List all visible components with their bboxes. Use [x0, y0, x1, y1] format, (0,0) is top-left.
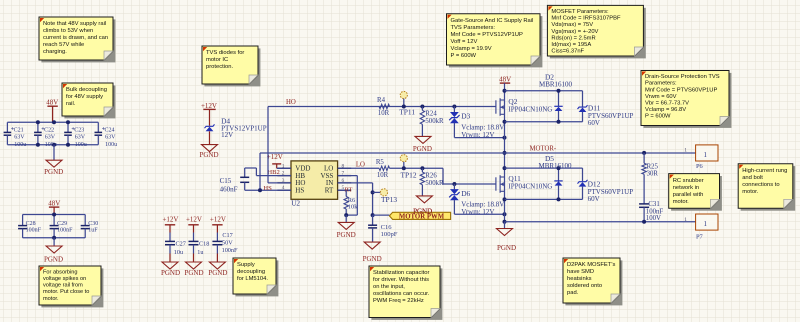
- test point TP11: [400, 91, 407, 98]
- transistor Q2: [495, 100, 497, 113]
- svg-text:PGND: PGND: [337, 231, 356, 239]
- svg-text:HO: HO: [286, 99, 296, 106]
- wire pin3 HO vertical: [267, 107, 269, 183]
- svg-text:Stabilization capacitor: Stabilization capacitor: [373, 270, 429, 276]
- svg-text:C16: C16: [381, 224, 393, 231]
- capacitor C23: [67, 122, 69, 132]
- svg-text:PWM Freq = 22kHz: PWM Freq = 22kHz: [373, 298, 424, 304]
- svg-text:P7: P7: [696, 234, 704, 241]
- svg-text:R26: R26: [425, 172, 437, 179]
- svg-text:HS: HS: [295, 187, 304, 195]
- svg-text:and bolt: and bolt: [742, 175, 763, 181]
- svg-text:Vgs(max) = +-20V: Vgs(max) = +-20V: [551, 29, 598, 35]
- svg-text:TVS diodes for: TVS diodes for: [206, 50, 244, 56]
- svg-text:100pF: 100pF: [381, 231, 398, 238]
- diode D6 TVS: [452, 182, 456, 186]
- wire pin5 RT: [338, 189, 350, 191]
- ground PGND (VSS/R6): [345, 215, 347, 222]
- wire pin4 HS: [245, 189, 291, 191]
- svg-text:MBR16100: MBR16100: [539, 80, 573, 88]
- pin stubs U2: [277, 167, 291, 169]
- svg-text:soldered onto: soldered onto: [567, 283, 602, 289]
- wire PGND bus 2: [23, 237, 86, 239]
- capacitor C30: [84, 215, 86, 226]
- wire D6 to source: [454, 213, 504, 215]
- note TVS diodes: [202, 46, 260, 86]
- resistor R25 snubber: [643, 153, 645, 163]
- wire pin8 LO to R5: [338, 167, 380, 169]
- svg-text:30R: 30R: [647, 170, 659, 177]
- svg-text:HB2: HB2: [267, 169, 279, 176]
- svg-text:RT: RT: [325, 187, 334, 195]
- svg-text:100u: 100u: [14, 142, 26, 148]
- svg-text:PGND: PGND: [363, 255, 382, 263]
- svg-text:voltage rail from: voltage rail from: [43, 283, 83, 289]
- svg-text:12V: 12V: [221, 131, 233, 139]
- note high-current connections: [738, 164, 795, 211]
- svg-text:for LM5104.: for LM5104.: [237, 276, 268, 282]
- svg-text:Note that 48V supply rail: Note that 48V supply rail: [43, 21, 106, 27]
- svg-text:Mnf Code = PTVS12VP1UP: Mnf Code = PTVS12VP1UP: [451, 32, 523, 38]
- note gate-source TVS parameters: [447, 14, 543, 68]
- svg-text:High-current rung: High-current rung: [742, 168, 787, 174]
- svg-text:+12V: +12V: [162, 215, 178, 223]
- svg-text:TVS Parameters:: TVS Parameters:: [451, 25, 496, 31]
- test point TP13: [371, 190, 375, 194]
- svg-text:1uF: 1uF: [88, 228, 98, 234]
- note stabilization capacitor: [369, 266, 442, 320]
- wire MOTOR- rail: [260, 152, 696, 154]
- note drain-source TVS parameters: [641, 71, 731, 128]
- junction dots power column: [503, 89, 507, 93]
- svg-text:50V: 50V: [222, 240, 233, 247]
- svg-text:Vds(max) = 75V: Vds(max) = 75V: [551, 22, 593, 28]
- svg-text:PGND: PGND: [208, 269, 227, 277]
- note bulk decoupling: [62, 83, 115, 118]
- svg-text:100nF: 100nF: [57, 228, 73, 234]
- capacitor C16: [372, 215, 374, 225]
- svg-text:63V: 63V: [14, 135, 25, 141]
- wire D2/D11 bottom bus: [505, 121, 583, 123]
- svg-text:10u: 10u: [174, 249, 183, 256]
- svg-text:connections to: connections to: [742, 182, 779, 188]
- svg-text:Parameters:: Parameters:: [645, 81, 677, 87]
- ground PGND (cap bank): [53, 145, 55, 161]
- svg-text:PGND: PGND: [413, 145, 432, 153]
- svg-text:motor.: motor.: [43, 296, 59, 302]
- svg-text:motor IC: motor IC: [206, 57, 228, 63]
- svg-text:C31: C31: [648, 201, 659, 208]
- port MOTOR PWM: [389, 212, 450, 219]
- svg-text:Voff = 12V: Voff = 12V: [451, 39, 478, 45]
- svg-text:60V: 60V: [588, 119, 600, 127]
- svg-text:U2: U2: [291, 200, 300, 208]
- svg-text:C27: C27: [176, 241, 186, 248]
- svg-text:C21: C21: [14, 127, 24, 133]
- wire pin7 VSS route: [338, 175, 358, 177]
- note RC snubber: [669, 174, 722, 211]
- svg-text:HS: HS: [263, 185, 272, 192]
- svg-text:500kR: 500kR: [425, 118, 444, 125]
- svg-text:MOSFET Parameters:: MOSFET Parameters:: [551, 9, 609, 15]
- wire 48V bus: [7, 121, 98, 123]
- junction dots cap bank: [36, 120, 40, 124]
- svg-text:Mnf Code = PTVS60VP1UP: Mnf Code = PTVS60VP1UP: [645, 87, 717, 93]
- svg-text:Drain-Source Protection TVS: Drain-Source Protection TVS: [645, 74, 720, 80]
- svg-text:100nF: 100nF: [26, 228, 42, 234]
- svg-text:100u: 100u: [105, 142, 117, 148]
- svg-text:current is drawn, and can: current is drawn, and can: [43, 35, 108, 41]
- ground PGND (C16): [364, 242, 380, 249]
- wire D2/D11 top bus: [505, 90, 583, 92]
- svg-text:+12V: +12V: [210, 215, 226, 223]
- diode D3 TVS: [452, 105, 456, 109]
- svg-text:Vclamp = 96.8V: Vclamp = 96.8V: [645, 107, 686, 113]
- capacitor C15: [244, 168, 246, 177]
- svg-text:TP13: TP13: [381, 195, 397, 204]
- svg-text:voltage spikes on: voltage spikes on: [43, 276, 86, 282]
- svg-text:C29: C29: [57, 221, 67, 227]
- svg-text:1: 1: [684, 147, 687, 153]
- svg-text:R4: R4: [377, 97, 386, 104]
- svg-text:for driver. Without this: for driver. Without this: [373, 277, 429, 283]
- svg-text:motor. Put close to: motor. Put close to: [43, 289, 89, 295]
- svg-text:10R: 10R: [377, 172, 389, 179]
- svg-text:C30: C30: [88, 221, 98, 227]
- resistor R4: [379, 104, 389, 108]
- svg-text:Bulk decoupling: Bulk decoupling: [66, 87, 107, 93]
- svg-text:C17: C17: [222, 232, 232, 239]
- svg-text:climbs to 53V when: climbs to 53V when: [43, 28, 93, 34]
- svg-text:C28: C28: [26, 221, 36, 227]
- svg-text:on the input,: on the input,: [373, 284, 405, 290]
- svg-text:Mnf Code = IRFS3107PBF: Mnf Code = IRFS3107PBF: [551, 16, 621, 22]
- svg-text:460nF: 460nF: [220, 185, 238, 193]
- svg-text:100u: 100u: [75, 142, 87, 148]
- svg-text:C22: C22: [44, 127, 54, 133]
- capacitor C21: [6, 122, 8, 132]
- svg-text:PGND: PGND: [161, 269, 180, 277]
- svg-text:C15: C15: [220, 177, 232, 185]
- capacitor C22: [37, 122, 39, 132]
- svg-text:PGND: PGND: [44, 256, 63, 264]
- svg-text:500kR: 500kR: [425, 180, 444, 187]
- svg-text:Ciss=6.37nF: Ciss=6.37nF: [551, 49, 584, 55]
- svg-text:C24: C24: [105, 127, 115, 133]
- svg-text:63V: 63V: [75, 135, 86, 141]
- capacitor C31: [639, 203, 649, 205]
- svg-text:motor.: motor.: [742, 189, 758, 195]
- svg-text:oscillations can occur.: oscillations can occur.: [373, 291, 430, 297]
- svg-text:P6: P6: [696, 163, 703, 170]
- wire D5/D12 bottom bus: [505, 198, 583, 200]
- svg-text:decoupling: decoupling: [237, 269, 265, 275]
- diode D4 TVS: [209, 109, 211, 125]
- ground PGND (D4): [202, 145, 218, 152]
- svg-text:PGND: PGND: [413, 208, 432, 216]
- svg-text:P = 600W: P = 600W: [451, 53, 477, 59]
- svg-text:Gate-Source And IC Supply Rail: Gate-Source And IC Supply Rail: [451, 18, 534, 24]
- wire pin2 HB: [256, 175, 291, 177]
- svg-text:Rds(on) = 2.5mR: Rds(on) = 2.5mR: [551, 35, 595, 41]
- svg-text:+12V: +12V: [201, 102, 217, 110]
- op-amp U2 LM5104 driver body: [291, 161, 338, 199]
- diode D5 MBR16100: [558, 168, 560, 181]
- svg-text:D6: D6: [461, 189, 470, 198]
- svg-text:motor.: motor.: [673, 199, 689, 205]
- resistor R6: [345, 190, 347, 196]
- svg-text:1: 1: [703, 151, 707, 159]
- note supply decoupling: [233, 258, 278, 296]
- svg-text:100V: 100V: [646, 215, 661, 222]
- svg-text:+12V: +12V: [267, 153, 283, 161]
- svg-text:PGND: PGND: [184, 269, 203, 277]
- transistor Q11: [495, 177, 497, 190]
- svg-text:10k: 10k: [348, 204, 358, 211]
- svg-text:1u: 1u: [197, 249, 203, 256]
- resistor R26: [420, 166, 424, 170]
- svg-text:MBR16100: MBR16100: [538, 162, 572, 170]
- svg-text:For absorbing: For absorbing: [43, 269, 78, 275]
- svg-text:pad.: pad.: [567, 290, 579, 296]
- svg-text:Supply: Supply: [237, 262, 255, 268]
- svg-text:48V: 48V: [48, 199, 60, 207]
- svg-text:C18: C18: [199, 241, 209, 248]
- ground PGND (R24): [415, 136, 431, 143]
- note MOSFET parameters: [547, 5, 645, 58]
- svg-text:parallel with: parallel with: [673, 192, 704, 198]
- svg-text:PGND: PGND: [199, 151, 218, 159]
- svg-text:network in: network in: [673, 185, 699, 191]
- svg-text:10R: 10R: [378, 110, 390, 117]
- svg-text:rail.: rail.: [66, 101, 76, 107]
- capacitor C29: [53, 215, 55, 226]
- svg-text:63V: 63V: [105, 135, 116, 141]
- svg-text:1: 1: [684, 217, 687, 223]
- svg-text:1: 1: [703, 220, 707, 228]
- note absorbing voltage spikes: [39, 266, 103, 307]
- ground PGND (R26): [416, 196, 432, 203]
- svg-text:Vbr = 66.7-73.7V: Vbr = 66.7-73.7V: [645, 101, 689, 107]
- wire D5/D12 top bus: [505, 167, 583, 169]
- svg-text:D3: D3: [461, 112, 470, 121]
- wire 48V to PGND vertical: [504, 83, 506, 222]
- diode D2 MBR16100: [558, 91, 560, 107]
- svg-text:have SMD: have SMD: [567, 269, 594, 275]
- svg-text:Id(max) = 195A: Id(max) = 195A: [551, 42, 591, 48]
- svg-text:RC snubber: RC snubber: [673, 178, 704, 184]
- resistor R24: [420, 105, 424, 109]
- note D2PAK heatsinks: [563, 258, 622, 305]
- capacitor C28: [22, 215, 24, 226]
- ground PGND (snubber bank): [53, 238, 55, 246]
- diode D11 TVS: [582, 91, 584, 107]
- wire HS to MOTOR- rail: [259, 153, 261, 190]
- capacitor C24: [97, 122, 99, 132]
- svg-text:P = 600W: P = 600W: [645, 114, 671, 120]
- wire HO net: [268, 106, 496, 108]
- ground PGND (Q11 source): [504, 222, 506, 229]
- wire 48V bus 2: [23, 214, 86, 216]
- svg-text:R5: R5: [376, 159, 385, 166]
- svg-text:63V: 63V: [45, 135, 56, 141]
- svg-text:IPP04CN10NG: IPP04CN10NG: [508, 182, 552, 190]
- svg-text:60V: 60V: [588, 195, 600, 203]
- note 48V supply rail: [39, 17, 115, 62]
- wire to MOTOR PWM port: [371, 213, 375, 217]
- svg-text:heatsinks: heatsinks: [567, 276, 592, 282]
- svg-text:C23: C23: [74, 127, 84, 133]
- svg-text:R24: R24: [425, 111, 437, 118]
- wire pin1 VDD: [277, 167, 291, 169]
- svg-text:TP11: TP11: [399, 108, 415, 117]
- wire pin6 IN route: [338, 182, 373, 184]
- svg-text:+12V: +12V: [186, 215, 202, 223]
- wire LO to gate: [390, 167, 444, 169]
- svg-text:for 48V supply: for 48V supply: [66, 94, 103, 100]
- wire PGND rail: [505, 221, 696, 223]
- wire D3 to source: [454, 137, 504, 139]
- resistor R5: [379, 166, 389, 170]
- svg-text:D2PAK MOSFET's: D2PAK MOSFET's: [567, 262, 615, 268]
- svg-text:PGND: PGND: [497, 244, 516, 252]
- svg-text:PGND: PGND: [44, 168, 63, 176]
- test point TP12: [400, 155, 407, 162]
- svg-text:reach 57V while: reach 57V while: [43, 42, 84, 48]
- svg-text:48V: 48V: [46, 99, 58, 107]
- svg-text:Vrwm = 60V: Vrwm = 60V: [645, 94, 677, 100]
- svg-text:Vclamp = 19.9V: Vclamp = 19.9V: [451, 46, 492, 52]
- svg-text:protection.: protection.: [206, 64, 233, 70]
- svg-text:TP12: TP12: [401, 170, 417, 179]
- wire PGND bus: [7, 144, 98, 146]
- svg-text:IPP04CN10NG: IPP04CN10NG: [508, 105, 552, 113]
- diode D12 TVS: [582, 168, 584, 181]
- svg-text:LO: LO: [356, 161, 365, 168]
- svg-text:MOTOR-: MOTOR-: [530, 145, 557, 152]
- svg-text:charging.: charging.: [43, 49, 67, 55]
- svg-text:100nF: 100nF: [222, 247, 238, 254]
